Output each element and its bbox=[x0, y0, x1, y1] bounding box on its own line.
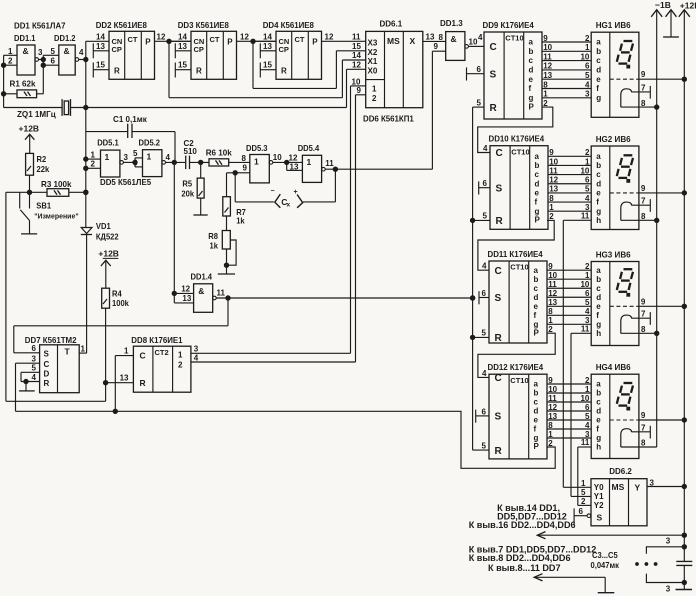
svg-text:6: 6 bbox=[483, 179, 488, 188]
svg-text:R: R bbox=[140, 378, 146, 388]
svg-text:b: b bbox=[534, 389, 539, 398]
svg-text:f: f bbox=[596, 311, 599, 320]
svg-text:h: h bbox=[596, 329, 601, 338]
wire DD8 out3 to DD6.1 sel10 bbox=[350, 86, 352, 353]
svg-text:c: c bbox=[529, 56, 534, 65]
svg-text:1: 1 bbox=[81, 344, 86, 353]
svg-text:4: 4 bbox=[194, 354, 199, 363]
svg-text:DD6 К561КП1: DD6 К561КП1 bbox=[363, 114, 414, 123]
HG4 digit 8 bbox=[617, 383, 633, 410]
svg-text:CP: CP bbox=[279, 45, 289, 54]
svg-text:13: 13 bbox=[182, 294, 191, 303]
DD12 output pin numbers bbox=[548, 376, 557, 448]
pin 12 output DD3 bbox=[237, 32, 277, 43]
pin 11 h wire HG3 bbox=[571, 325, 591, 334]
HG1 segment letters bbox=[596, 38, 601, 103]
svg-text:2: 2 bbox=[549, 212, 554, 221]
wire DD5.2 out down to DD1.4 bbox=[173, 162, 175, 303]
DD9 output letters bbox=[529, 38, 535, 112]
svg-text:R: R bbox=[490, 103, 498, 114]
svg-text:4: 4 bbox=[166, 153, 171, 162]
pin 7 stub HG1 bbox=[632, 83, 651, 98]
node DD5.4 inputs bbox=[287, 153, 303, 171]
svg-text:12: 12 bbox=[157, 32, 166, 41]
resistor R2 bbox=[26, 153, 50, 194]
pin 6 S stub DD10 bbox=[479, 179, 490, 194]
filament HG1 bbox=[621, 89, 632, 107]
svg-text:e: e bbox=[534, 416, 539, 425]
capacitor C2 bbox=[184, 139, 210, 169]
power -1V label bbox=[655, 0, 671, 10]
pin 1 wire DD1.1 bbox=[4, 47, 17, 56]
wire DD8 out4 to DD6.1 sel9 bbox=[355, 95, 357, 362]
svg-text:12: 12 bbox=[181, 285, 190, 294]
counter DD8 box bbox=[133, 346, 191, 392]
node wire left bus DD1 input bbox=[1, 55, 5, 107]
svg-text:10: 10 bbox=[273, 153, 282, 162]
HG2 input pin numbers bbox=[580, 148, 589, 212]
svg-text:P: P bbox=[534, 329, 540, 338]
display HG4 box bbox=[591, 374, 639, 458]
svg-text:CT10: CT10 bbox=[510, 263, 528, 272]
svg-text:a: a bbox=[534, 380, 539, 389]
svg-text:CT10: CT10 bbox=[511, 147, 529, 156]
svg-text:14: 14 bbox=[178, 32, 187, 41]
svg-text:13: 13 bbox=[426, 32, 435, 41]
svg-text:b: b bbox=[596, 275, 601, 284]
svg-text:b: b bbox=[535, 161, 540, 170]
display HG4 label bbox=[596, 362, 631, 372]
diode VD1 bbox=[81, 222, 119, 353]
capacitor bank bottom bracket bbox=[646, 574, 686, 585]
svg-text:R5: R5 bbox=[182, 179, 192, 188]
svg-text:b: b bbox=[534, 275, 539, 284]
decimal point line Y0 bbox=[562, 220, 564, 487]
svg-text:P: P bbox=[534, 442, 540, 451]
DD10 output letters bbox=[535, 152, 541, 225]
DD10 output pin numbers bbox=[549, 148, 558, 221]
svg-text:e: e bbox=[529, 75, 534, 84]
svg-text:6: 6 bbox=[32, 344, 37, 353]
node A oscillator feedback bbox=[41, 55, 45, 94]
crystal ZQ1 bbox=[4, 99, 347, 119]
pin 7 stub HG2 bbox=[632, 197, 651, 212]
svg-text:d: d bbox=[596, 407, 601, 416]
svg-text:10: 10 bbox=[580, 166, 589, 175]
pin 15 label DD6.1 bbox=[352, 42, 361, 51]
pin 3 output DD5.1 bbox=[120, 153, 137, 165]
svg-text:20k: 20k bbox=[181, 189, 194, 198]
svg-text:DD11 К176ИЕ4: DD11 К176ИЕ4 bbox=[488, 250, 544, 259]
pin 9 wire DD1.3 bbox=[432, 42, 445, 51]
ground bottom right bbox=[676, 589, 693, 591]
svg-text:"Измерение": "Измерение" bbox=[34, 211, 78, 220]
capacitor bank C3..C5 label bbox=[591, 551, 620, 570]
svg-text:8: 8 bbox=[641, 99, 646, 108]
svg-text:Y2: Y2 bbox=[594, 501, 604, 510]
pin 5 R wire DD11 bbox=[473, 329, 489, 338]
svg-text:P: P bbox=[529, 102, 535, 111]
svg-text:5: 5 bbox=[32, 364, 37, 373]
svg-text:5: 5 bbox=[581, 488, 586, 497]
wire DD8 C to bottom rail bbox=[113, 356, 117, 414]
svg-text:6: 6 bbox=[482, 289, 487, 298]
switch SB1 bbox=[6, 192, 79, 234]
svg-text:2: 2 bbox=[585, 376, 590, 385]
pin 11 h wire HG4 bbox=[578, 438, 591, 447]
svg-text:10: 10 bbox=[580, 280, 589, 289]
pin 4 output DD8 bbox=[191, 354, 356, 363]
pin 9 grid line HG4 bbox=[610, 411, 687, 422]
text K vyv 7 bbox=[469, 544, 597, 554]
multiplexer DD6.1 box bbox=[366, 31, 423, 107]
pin 5 R wire DD9 bbox=[473, 98, 484, 107]
svg-text:C: C bbox=[490, 42, 497, 53]
svg-text:C: C bbox=[495, 373, 502, 384]
wire DD2 to mux X1 bbox=[169, 41, 366, 97]
svg-text:X2: X2 bbox=[368, 48, 378, 57]
svg-text:e: e bbox=[596, 75, 601, 84]
svg-text:5: 5 bbox=[477, 98, 482, 107]
svg-text:12: 12 bbox=[325, 32, 334, 41]
pin 10 output DD1.3 bbox=[465, 37, 484, 48]
svg-text:e: e bbox=[596, 416, 601, 425]
svg-text:Y0: Y0 bbox=[594, 483, 604, 492]
HG2 digit 8 bbox=[617, 155, 633, 182]
HG4 input pin numbers bbox=[580, 376, 589, 439]
gate DD5 name bbox=[100, 178, 152, 187]
svg-text:3: 3 bbox=[666, 537, 671, 546]
svg-text:R2: R2 bbox=[37, 155, 47, 164]
multiplexer DD6.2 label bbox=[609, 467, 632, 476]
svg-text:3: 3 bbox=[32, 354, 37, 363]
svg-text:DD9 К176ИЕ4: DD9 К176ИЕ4 bbox=[483, 21, 535, 30]
svg-text:a: a bbox=[529, 38, 534, 47]
pin 8 wire HG1 bbox=[621, 99, 659, 110]
counter DD12 label bbox=[488, 363, 544, 372]
wire 1MHz to mux X0 bbox=[347, 69, 366, 107]
svg-text:b: b bbox=[596, 161, 601, 170]
gate DD5.1 bbox=[97, 138, 120, 177]
pin 9 grid line HG2 bbox=[610, 184, 687, 195]
pin 14 label DD6.1 bbox=[352, 51, 361, 60]
svg-text:1: 1 bbox=[124, 346, 129, 355]
svg-text:+12В: +12В bbox=[98, 249, 119, 259]
pin 12 wire DD1.4 bbox=[172, 285, 194, 296]
capacitor C1 bbox=[86, 114, 175, 163]
pin 6 S stub DD9 bbox=[467, 65, 485, 80]
svg-text:X0: X0 bbox=[368, 66, 378, 75]
pin 1 C wire DD8 bbox=[115, 346, 133, 355]
svg-text:8: 8 bbox=[641, 439, 646, 448]
svg-text:VD1: VD1 bbox=[96, 222, 111, 231]
left bus SB1 node to R4 bbox=[6, 192, 106, 401]
svg-text:c: c bbox=[535, 170, 540, 179]
svg-text:6: 6 bbox=[585, 403, 590, 412]
svg-text:C: C bbox=[495, 266, 502, 277]
pin 3 output DD6.2 bbox=[647, 478, 687, 488]
counter DD2 box bbox=[109, 31, 155, 79]
svg-text:11: 11 bbox=[325, 159, 334, 168]
label 3 wire bottom bbox=[666, 585, 671, 594]
wire R7 to R8 bbox=[226, 216, 228, 231]
svg-text:f: f bbox=[596, 425, 599, 434]
pin 11 output DD1.4 bbox=[213, 289, 475, 300]
HG1 input pin numbers bbox=[580, 34, 589, 99]
svg-text:15: 15 bbox=[352, 42, 361, 51]
pin 13 output DD6.1 wire bbox=[423, 32, 446, 41]
pin 13 stub DD3 bbox=[175, 42, 191, 59]
power +12V top left bbox=[19, 124, 40, 154]
svg-text:CT10: CT10 bbox=[505, 34, 523, 43]
svg-text:6: 6 bbox=[477, 65, 482, 74]
svg-text:6: 6 bbox=[585, 289, 590, 298]
DD9 output pin numbers bbox=[543, 34, 552, 108]
svg-text:C1 0,1мк: C1 0,1мк bbox=[113, 114, 148, 124]
wire node 9 to R7 bbox=[227, 173, 236, 197]
svg-text:9: 9 bbox=[243, 163, 248, 172]
gate DD1.3 bbox=[440, 19, 465, 60]
pin 4 output DD1.2 bbox=[75, 48, 86, 62]
pin 13 stub DD2 bbox=[93, 42, 109, 59]
resistor R8 bbox=[208, 231, 230, 251]
svg-text:DD2 К561ИЕ8: DD2 К561ИЕ8 bbox=[96, 21, 148, 30]
pin 9 wire DD5.3 bbox=[233, 163, 250, 175]
resistor R6 bbox=[206, 147, 250, 166]
svg-text:3: 3 bbox=[38, 48, 43, 57]
svg-text:a: a bbox=[535, 152, 540, 161]
pin 8 wire HG3 bbox=[621, 325, 659, 335]
svg-text:8: 8 bbox=[439, 33, 444, 42]
svg-text:7: 7 bbox=[641, 310, 646, 319]
svg-text:14: 14 bbox=[263, 32, 272, 41]
svg-text:5: 5 bbox=[133, 149, 138, 158]
svg-text:R8: R8 bbox=[208, 232, 218, 241]
node DD5.2 inputs bbox=[133, 149, 142, 167]
pin 7 stub HG3 bbox=[632, 310, 651, 325]
pin 4 C label DD9 bbox=[478, 33, 483, 42]
display HG2 box bbox=[591, 146, 639, 230]
text K vyv 14 bbox=[497, 503, 560, 513]
svg-text:6: 6 bbox=[51, 57, 56, 66]
svg-text:3: 3 bbox=[650, 478, 655, 487]
pin 5 R wire DD12 bbox=[473, 441, 489, 450]
svg-text:DD6.1: DD6.1 bbox=[380, 20, 403, 29]
svg-text:11: 11 bbox=[217, 289, 226, 298]
capacitor bank dots bbox=[636, 563, 657, 566]
decimal point line Y2 bbox=[577, 447, 579, 505]
svg-text:d: d bbox=[596, 293, 601, 302]
svg-text:c: c bbox=[596, 398, 601, 407]
svg-text:1: 1 bbox=[178, 351, 183, 360]
svg-text:d: d bbox=[529, 66, 534, 75]
R8 tap wire bbox=[227, 240, 237, 265]
svg-text:f: f bbox=[596, 198, 599, 207]
capacitor bank top bracket bbox=[646, 545, 686, 554]
svg-text:DD3 К561ИЕ8: DD3 К561ИЕ8 bbox=[178, 21, 230, 30]
pin 9 select wire DD6.1 bbox=[356, 86, 366, 95]
pin 3 output DD8 bbox=[191, 345, 351, 354]
svg-text:11: 11 bbox=[352, 32, 361, 41]
svg-text:e: e bbox=[534, 302, 539, 311]
svg-text:c: c bbox=[596, 170, 601, 179]
pin 2 wire DD5.1 bbox=[86, 160, 101, 169]
gate DD1.1 bbox=[14, 34, 36, 75]
svg-text:2: 2 bbox=[178, 361, 183, 370]
svg-text:1: 1 bbox=[372, 85, 377, 94]
common arrow symbol bbox=[663, 10, 679, 37]
svg-text:g: g bbox=[596, 93, 601, 102]
HG4 segment letters bbox=[596, 380, 601, 452]
svg-text:−: − bbox=[271, 188, 275, 195]
svg-text:DD12 К176ИЕ4: DD12 К176ИЕ4 bbox=[488, 363, 544, 372]
svg-text:S: S bbox=[495, 412, 502, 423]
svg-text:7: 7 bbox=[641, 423, 646, 432]
arrow ground to pins bbox=[534, 574, 614, 593]
power -1V arrow rail bbox=[651, 10, 662, 447]
svg-text:&: & bbox=[64, 46, 70, 56]
svg-text:x: x bbox=[287, 202, 291, 209]
pin 3 C wire DD7 bbox=[16, 354, 40, 363]
filament HG3 bbox=[621, 315, 632, 333]
svg-text:DD1 К561ЛА7: DD1 К561ЛА7 bbox=[14, 21, 66, 30]
multiplexer DD6.2 box bbox=[591, 479, 647, 526]
resistor R7 bbox=[223, 197, 246, 226]
pin 8 wire HG4 bbox=[621, 439, 657, 448]
svg-text:C3...C5: C3...C5 bbox=[592, 551, 618, 560]
svg-text:4: 4 bbox=[483, 144, 488, 153]
text K vyv 14b bbox=[497, 511, 567, 521]
arrow power to pins bbox=[537, 532, 686, 539]
counter DD4 box bbox=[276, 31, 322, 79]
pin 14 wire DD3 bbox=[169, 32, 191, 41]
svg-text:b: b bbox=[596, 47, 601, 56]
svg-text:h: h bbox=[596, 216, 601, 225]
svg-text:1: 1 bbox=[254, 156, 259, 166]
svg-text:2: 2 bbox=[585, 262, 590, 271]
svg-text:R6 10k: R6 10k bbox=[206, 147, 232, 157]
svg-text:4: 4 bbox=[482, 369, 487, 378]
svg-text:13: 13 bbox=[290, 163, 299, 172]
svg-text:R: R bbox=[281, 67, 287, 76]
wire DD5.4 to DD1.3 bbox=[431, 51, 433, 169]
svg-text:DD1.2: DD1.2 bbox=[54, 34, 76, 43]
svg-text:22k: 22k bbox=[37, 165, 50, 174]
svg-text:DD10 К176ИЕ4: DD10 К176ИЕ4 bbox=[489, 134, 545, 143]
svg-text:9: 9 bbox=[641, 70, 646, 79]
wire DD11 P to DD12 C bbox=[478, 333, 555, 377]
pin 11 h wire HG2 bbox=[563, 212, 591, 221]
svg-text:c: c bbox=[596, 56, 601, 65]
svg-text:CP: CP bbox=[194, 45, 204, 54]
svg-text:4: 4 bbox=[32, 373, 37, 382]
svg-text:+12В: +12В bbox=[19, 124, 40, 134]
svg-text:13: 13 bbox=[263, 42, 272, 51]
svg-text:b: b bbox=[596, 389, 601, 398]
svg-text:P: P bbox=[145, 38, 151, 47]
svg-text:3: 3 bbox=[194, 345, 199, 354]
display HG3 box bbox=[591, 262, 639, 346]
svg-text:S: S bbox=[597, 513, 603, 523]
svg-text:HG1 ИВ6: HG1 ИВ6 bbox=[596, 20, 631, 30]
svg-text:R: R bbox=[196, 67, 202, 76]
svg-text:b: b bbox=[529, 47, 534, 56]
svg-text:a: a bbox=[596, 380, 601, 389]
pin 3 output DD1.1 bbox=[35, 48, 43, 62]
pin 4 output DD5.2 bbox=[162, 153, 186, 165]
svg-text:c: c bbox=[596, 284, 601, 293]
svg-text:f: f bbox=[596, 84, 599, 93]
gate DD1 label bbox=[14, 21, 66, 30]
display HG2 label bbox=[596, 134, 631, 144]
svg-text:DD1.4: DD1.4 bbox=[191, 272, 213, 281]
svg-text:1: 1 bbox=[147, 152, 152, 162]
pin 15 stub DD2 bbox=[93, 61, 109, 78]
counter DD9 box bbox=[484, 32, 542, 119]
svg-text:4: 4 bbox=[478, 33, 483, 42]
svg-text:CT: CT bbox=[295, 35, 305, 44]
svg-text:10: 10 bbox=[469, 37, 478, 46]
resistor R4 bbox=[102, 288, 130, 401]
svg-text:10: 10 bbox=[580, 394, 589, 403]
svg-text:8: 8 bbox=[641, 212, 646, 221]
svg-text:CP: CP bbox=[112, 45, 122, 54]
reset rail DD9..DD12 bbox=[470, 107, 474, 450]
svg-text:15: 15 bbox=[178, 61, 187, 70]
svg-text:R4: R4 bbox=[112, 289, 122, 298]
svg-text:R: R bbox=[495, 446, 503, 457]
svg-text:e: e bbox=[535, 189, 540, 198]
svg-text:5: 5 bbox=[585, 412, 590, 421]
svg-text:1: 1 bbox=[581, 479, 586, 488]
display HG1 label bbox=[596, 20, 631, 30]
svg-text:13: 13 bbox=[120, 374, 129, 383]
power +12V mid bbox=[98, 249, 119, 289]
svg-text:R3 100k: R3 100k bbox=[41, 179, 72, 189]
counter DD2 label bbox=[96, 21, 148, 30]
HG3 digit 8 bbox=[617, 269, 633, 296]
svg-text:DD1.3: DD1.3 bbox=[440, 19, 463, 28]
label 3 wire top bbox=[666, 537, 671, 546]
pin 15 stub DD4 bbox=[260, 61, 276, 78]
pin 6 S stub DD12 bbox=[476, 407, 489, 422]
pin 4 C label DD10 bbox=[483, 144, 488, 153]
text K vyv 8 11 bbox=[488, 563, 561, 573]
svg-text:g: g bbox=[596, 434, 601, 443]
svg-text:X: X bbox=[410, 36, 416, 46]
svg-text:P: P bbox=[535, 216, 541, 225]
counter DD11 label bbox=[488, 250, 544, 259]
svg-text:g: g bbox=[529, 93, 534, 102]
svg-text:2: 2 bbox=[91, 160, 96, 169]
svg-text:Y1: Y1 bbox=[594, 492, 604, 501]
wire node 9 to Cx bbox=[234, 173, 236, 202]
svg-text:13: 13 bbox=[178, 42, 187, 51]
Cx measurement terminals bbox=[235, 169, 335, 208]
svg-text:8: 8 bbox=[641, 325, 646, 334]
svg-text:DD1.1: DD1.1 bbox=[14, 34, 36, 43]
svg-text:S: S bbox=[495, 293, 502, 304]
pin 4 C label DD12 bbox=[482, 369, 487, 378]
svg-text:e: e bbox=[596, 302, 601, 311]
pin 9 grid line HG1 bbox=[610, 70, 687, 81]
svg-text:d: d bbox=[534, 407, 539, 416]
svg-text:2: 2 bbox=[585, 34, 590, 43]
svg-text:Y: Y bbox=[635, 482, 641, 492]
svg-text:CT: CT bbox=[128, 35, 138, 44]
svg-text:CT2: CT2 bbox=[155, 348, 169, 357]
wire DD1.4 out to DD7 bbox=[14, 298, 228, 353]
